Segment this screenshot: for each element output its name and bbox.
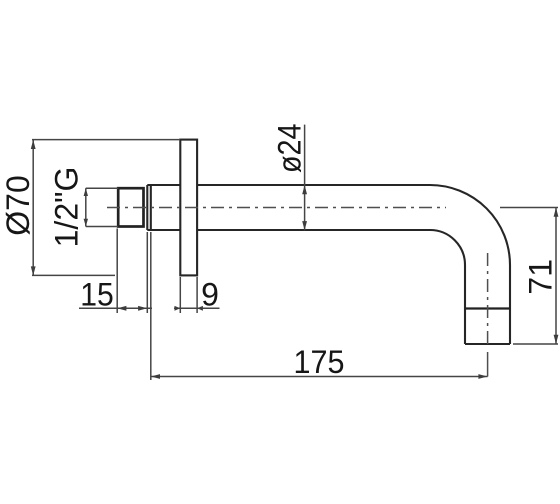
dim 9 line	[174, 307, 220, 309]
dim 1/2"G extension bottom	[86, 226, 118, 228]
dim 9 extension right	[196, 277, 198, 313]
dim 71 line	[555, 208, 557, 345]
dim 9 extension left	[179, 277, 181, 313]
svg-text:15: 15	[80, 277, 114, 313]
dim 15 line	[79, 307, 152, 309]
spout tube horizontal	[197, 185, 430, 230]
dim 1/2"G arrow up	[84, 188, 88, 196]
svg-text:Ø70: Ø70	[0, 175, 36, 235]
svg-text:71: 71	[523, 259, 559, 295]
svg-text:175: 175	[294, 344, 345, 380]
dim 175 extension left	[150, 232, 152, 380]
dim 175 arrow left	[151, 374, 160, 379]
dim 71 extension top	[500, 207, 558, 209]
dim 9 arrow right	[197, 306, 203, 311]
dim 15 arrow right	[138, 306, 147, 311]
svg-text:9: 9	[201, 277, 219, 313]
wall flange plate	[180, 140, 197, 276]
dim ø24 line	[304, 125, 306, 231]
centerline horizontal	[107, 207, 446, 209]
spout vertical tube	[465, 265, 510, 344]
dim Ø70 extension bottom	[32, 274, 115, 276]
centerline vertical	[487, 253, 489, 347]
spout bend inner	[430, 230, 465, 265]
dim 175 line	[151, 376, 488, 378]
dim Ø70 extension top	[32, 139, 180, 141]
dim 175 arrow right	[478, 374, 487, 379]
dim ø24 arrow down	[302, 221, 307, 230]
dim 1/2"G line	[85, 188, 87, 226]
dim Ø70 arrow down	[31, 266, 36, 275]
dim 1/2"G arrow down	[84, 219, 88, 227]
dim 15 arrow left	[117, 306, 126, 311]
dim 9 arrow left	[175, 306, 181, 311]
centerline vertical solid extension	[487, 352, 489, 377]
dim 71 arrow up	[554, 208, 559, 217]
spout bend outer	[430, 185, 510, 265]
svg-text:1/2"G: 1/2"G	[49, 167, 85, 248]
dim Ø70 line	[32, 140, 34, 276]
aerator joint line	[465, 307, 510, 309]
dim Ø70 arrow up	[31, 140, 36, 149]
threaded nut 1/2"G	[118, 188, 143, 226]
dim 1/2"G extension top	[86, 187, 118, 189]
spout collar tube (wall side)	[147, 185, 180, 230]
dim 71 extension bottom	[513, 343, 558, 345]
svg-text:ø24: ø24	[272, 124, 308, 174]
dim 71 arrow down	[554, 335, 559, 344]
dim ø24 arrow up	[302, 185, 307, 194]
dim 15 extension left	[116, 229, 118, 314]
dim 15 extension right	[146, 232, 148, 313]
